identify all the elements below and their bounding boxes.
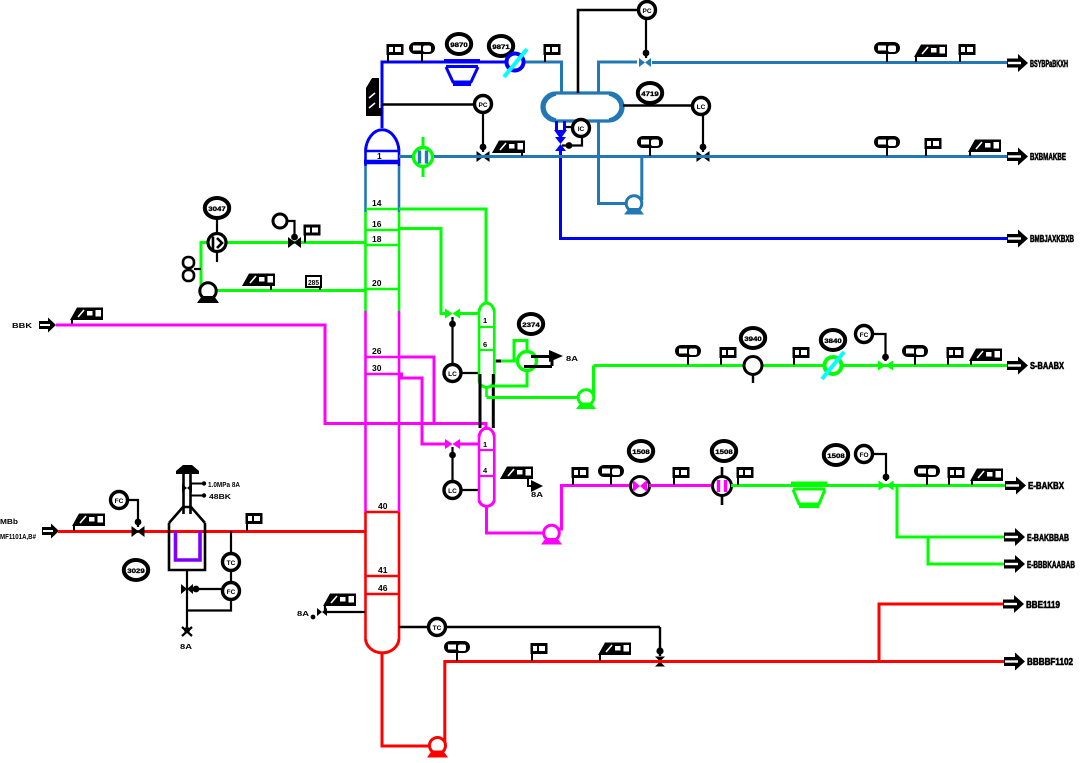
ramp label green line right [969,349,1002,362]
column steam inlet ramp [323,594,356,607]
instrument LC drum [693,98,710,115]
wire column bottom to pump red [382,653,430,746]
wire stripper1 bottom to pump green [487,396,579,399]
main column C1101 shell [364,130,400,653]
ramp label teal line right [968,140,1001,153]
inline instrument circle on green line [744,357,762,384]
reboil circuit green with control valve [494,341,527,362]
signal 3047 to control valve [216,218,218,234]
wire pumparound draw tray18 green [201,243,365,291]
junction dot [480,144,487,151]
svg-text:3029: 3029 [127,568,145,575]
junction dot [643,50,650,57]
instrument circle FO [856,446,873,463]
svg-text:1.0MPa 8A: 1.0MPa 8A [208,482,240,489]
blue strainer on overhead line [444,61,480,84]
svg-text:1508: 1508 [827,453,845,460]
pill label teal line right [874,136,900,156]
svg-text:46: 46 [378,583,388,593]
wall teal segment [364,166,367,212]
flag label green line 2 [793,347,810,365]
svg-text:MF1101A,B#: MF1101A,B# [0,534,36,541]
signal down to valve [659,627,661,656]
wire valve to stripper2 [459,443,479,446]
pill label magout [598,465,624,485]
wire red branch up to E1119 [879,604,1003,661]
svg-text:48BK: 48BK [209,494,231,501]
wall magenta segment [364,311,367,512]
svg-text:4: 4 [483,466,488,475]
pill label teal line mid [637,136,663,156]
tray 18 [366,244,398,246]
instrument ellipse 9870 [447,34,471,54]
wire drum bottom to pump teal [599,121,628,204]
ramp label teal line [492,141,525,154]
stripper2 pump magenta [541,525,562,544]
svg-text:LC: LC [448,488,457,495]
wire tray26 draw magenta [399,357,434,424]
valve on red bottoms line [655,657,665,667]
wire pump discharge teal [640,156,643,200]
feed valve black [132,527,144,536]
svg-text:FC: FC [115,498,124,505]
svg-text:BXBMAKBE: BXBMAKBE [1030,152,1066,163]
instrument ellipse 1508c [824,445,848,465]
tray 14 [366,208,398,210]
pill label green line [675,345,701,365]
pill label green line right [902,345,928,365]
wire tray30 draw magenta [399,374,445,444]
signal bottoms TC line black [399,626,660,629]
level valve on teal line 2 [697,152,709,161]
wall green segment [364,212,367,311]
svg-text:41: 41 [378,565,388,575]
pill label top line [874,42,900,62]
signal LC1 to stripper1 [461,372,479,374]
flag label teal line [925,138,942,156]
flag label magout 3 [737,467,754,485]
svg-text:8A: 8A [531,492,543,499]
signal valve to LC1 [451,317,453,365]
instrument ellipse 9871 [489,36,513,56]
signal PC2 to valve [645,19,647,58]
wire overhead vapor riser blue [382,62,506,128]
svg-text:8A: 8A [297,611,309,618]
tray number labels [372,151,388,593]
tray 40 [366,511,398,513]
feed heater with steam chimney [169,465,240,570]
tray 46 [366,593,398,595]
signal boot valve to IC [566,126,573,128]
outlet arrow green line [1007,357,1028,375]
ramp label red feed [72,514,105,527]
drum boot blue angle valve [554,121,567,151]
svg-text:8A: 8A [180,644,192,651]
svg-text:BMBJAXKBXB: BMBJAXKBXB [1030,234,1074,245]
svg-text:BBE1119: BBE1119 [1026,600,1060,611]
junction dot [700,144,707,151]
branch wire green down 1 [897,486,1004,538]
flag label overhead 1 [387,44,404,62]
svg-text:6: 6 [483,340,487,349]
ramp label top line [914,45,947,58]
wall blue segment [364,151,367,166]
wire pump discharge red bottoms line [445,662,1004,743]
svg-text:3047: 3047 [208,206,226,213]
instrument PC2 top [639,2,656,19]
flag label overhead 2 [544,44,561,62]
stripper1 pump green [576,390,596,409]
wire blue to bottom line [561,150,1008,239]
ramp label pumparound return [242,274,275,287]
stripper2 shell magenta [479,428,494,506]
instrument ellipse 3047 [205,198,229,218]
flag label green line right [947,347,964,365]
tray 26 [366,356,398,358]
instrument FC2 feed [223,583,240,600]
instrument IC boot [573,120,590,137]
heater bottom drain [186,570,188,630]
drum outlet riser to top line teal [599,62,638,93]
svg-text:1508: 1508 [715,449,733,456]
svg-text:FC: FC [860,332,869,339]
rect label 285 [306,276,321,290]
wall red segment [364,512,367,639]
outlet arrow branch1 [1004,528,1025,546]
bottoms pump red [427,738,448,758]
wire feed magenta to stripper2 top [56,325,486,430]
flag label magout 2 [673,467,690,485]
tray 30 [366,373,398,375]
outlet arrow top product [1007,54,1028,72]
svg-text:16: 16 [372,219,382,229]
instrument PC (overhead) [475,96,492,113]
flag label bottoms [531,643,548,661]
signal FC to feed valve [128,500,138,527]
outlet arrow magout [1005,477,1026,495]
inlet arrow red feed [42,524,59,539]
svg-text:BBK: BBK [12,323,32,330]
signal drum to LC [623,104,693,107]
svg-text:285: 285 [308,280,319,287]
svg-text:E-BAKBBAB: E-BAKBBAB [1027,533,1069,544]
signal PC to valve [482,113,484,152]
wire red feed line [58,530,365,533]
svg-text:FC: FC [227,589,236,596]
signal drum to PC2 [578,10,638,93]
svg-text:40: 40 [378,501,388,511]
svg-text:FO: FO [859,452,868,459]
reflux pump P1102 teal [624,196,644,215]
ramp label stripper2 [500,467,533,480]
svg-text:3840: 3840 [824,338,842,345]
svg-text:9871: 9871 [492,44,510,51]
outlet arrow E1119 [1003,595,1024,613]
pumparound pump black [197,283,219,303]
svg-text:3940: 3940 [744,336,762,343]
inline blind green circle on teal line [414,137,433,177]
svg-text:TC: TC [433,625,442,632]
svg-text:LC: LC [448,371,457,378]
dual capsule instrument on riser [183,257,201,281]
pill label magout right [914,465,940,485]
svg-text:E-BBBKAABAB: E-BBBKAABAB [1027,560,1075,571]
stripper1 shell green [479,303,494,397]
signal LC to valve [702,115,704,152]
svg-text:4719: 4719 [641,91,659,98]
wire magout mid magenta [649,484,714,487]
wire valve to stripper1 [459,312,479,315]
svg-text:BBBBF1102: BBBBF1102 [1027,657,1073,668]
pressure valve on top teal line [639,58,651,67]
instrument ellipse 1508a [629,441,653,461]
tray 1 thick blue [364,160,400,165]
hand valve on pumparound black [289,238,301,247]
outlet arrow bottoms [1004,653,1025,671]
flag label green line [720,347,737,365]
svg-text:PC: PC [642,8,651,15]
instrument ellipse 1508b [712,441,736,461]
instrument ellipse 3029 [124,560,148,580]
svg-text:BSYBPaBKXH: BSYBPaBKXH [1030,59,1068,70]
flag label red feed right [246,513,263,531]
svg-text:TC: TC [227,560,236,567]
svg-text:14: 14 [372,198,382,208]
svg-text:20: 20 [372,278,382,288]
control valve circle magenta [631,477,650,496]
svg-text:1: 1 [483,440,487,449]
svg-text:E-BAKBX: E-BAKBX [1028,481,1064,492]
signal FC to valve [873,334,886,361]
rotated ramp label at riser [366,78,382,116]
wire top tray product line teal [399,155,1007,158]
flag label pumparound [304,225,321,243]
instrument ellipse 3940 [741,328,765,348]
svg-text:1: 1 [483,316,487,325]
wire pump discharge magenta [559,486,632,530]
wire stripper2 bottom to pump magenta [487,505,545,533]
branch wire green down 2 [928,537,1004,564]
wire top product line teal [652,61,1007,64]
instrument ellipse 4719 [638,83,662,103]
signal TI to valve [287,221,295,240]
control valve circle on pumparound [208,234,226,263]
top dome [366,130,400,151]
svg-text:S-BAABX: S-BAABX [1030,361,1064,372]
tray 16 [366,229,398,231]
instrument TC feed [223,554,240,571]
svg-text:1: 1 [377,151,382,161]
outlet arrow blue line [1007,230,1028,248]
inline blind circle magenta to green [713,467,732,505]
svg-text:9870: 9870 [450,42,468,49]
ramp label feed [70,308,103,321]
wire tray14 draw green to stripper1 top [399,209,486,302]
tray 20 [366,288,398,290]
svg-text:18: 18 [372,234,382,244]
signal red line to TC FC chain [230,531,232,554]
svg-text:8A: 8A [566,356,578,363]
steam arrow black at valve [524,350,578,367]
outlet arrow branch2 [1004,555,1025,573]
restriction orifice FO blue with cyan slash [507,54,524,71]
svg-text:26: 26 [372,346,382,356]
wire tray16 draw green [399,229,445,314]
instrument FC red feed [111,492,128,509]
wire side product line green [594,364,1008,367]
tray 41 [366,575,398,577]
svg-text:30: 30 [372,363,382,373]
svg-text:IC: IC [578,126,585,133]
wire magout green section [731,484,1005,487]
feed valve stripper2 magenta [445,439,460,449]
svg-text:1508: 1508 [632,449,650,456]
bottom dome red [366,639,400,653]
svg-text:2374: 2374 [522,322,540,329]
svg-text:LC: LC [697,104,706,111]
signal LC2 to stripper2 [461,489,479,491]
ramp label magout right [970,469,1003,482]
signal FO to valve [873,454,886,481]
flag label top line [959,44,976,62]
control valve on teal product line (black) [477,152,489,161]
flag label magout right [948,467,965,485]
feed valve stripper1 green [445,309,460,319]
wire orifice to drum teal [524,62,562,93]
pill label overhead [409,42,435,62]
instrument small circle TI [273,214,287,228]
control valve green magout [879,481,894,491]
instrument ellipse 3840 [821,330,845,350]
signal valve to LC2 [451,447,453,482]
reflux drum V1101 [542,93,623,121]
svg-text:PC: PC [478,102,487,109]
outlet arrow teal line 2 [1007,148,1028,166]
control valve green on line [878,361,893,371]
orifice FO green with cyan slash [825,357,842,374]
instrument TC bottoms [429,619,446,636]
green strainer [791,483,827,506]
svg-text:MBb: MBb [0,519,18,526]
inlet arrow feed magenta [39,318,56,333]
signal line riser to PC [382,103,474,106]
black equalizing lines stripper1 to stripper2 [479,374,482,428]
ramp label bottoms [598,643,631,656]
instrument circle FC green line [856,326,873,343]
instrument LC stripper2 [444,482,461,499]
instrument LC stripper1 [444,365,461,382]
pill label bottoms [444,641,470,661]
flag label magout 1 [572,467,589,485]
instrument ellipse 2374 [519,314,543,334]
wire pump discharge green [592,366,595,395]
